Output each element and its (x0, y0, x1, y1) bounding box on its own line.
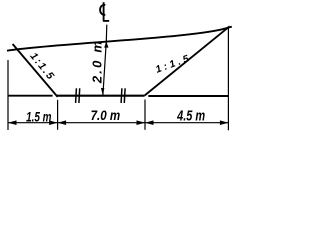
svg-text:2.0 m: 2.0 m (90, 39, 105, 84)
svg-text:4.5 m: 4.5 m (176, 107, 205, 124)
svg-text:1.5 m: 1.5 m (26, 109, 52, 125)
svg-text:7.0 m: 7.0 m (91, 107, 121, 123)
